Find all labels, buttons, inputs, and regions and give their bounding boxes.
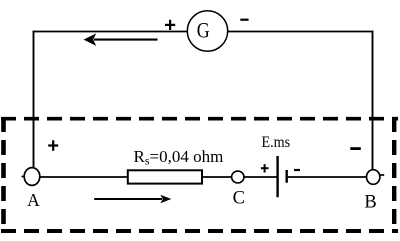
polarity minus at battery right — [294, 169, 300, 171]
svg-text:C: C — [233, 189, 245, 209]
polarity plus near A — [48, 140, 58, 151]
polarity plus at galvanometer left — [165, 20, 175, 30]
svg-text:G: G — [197, 17, 210, 42]
svg-text:B: B — [364, 192, 376, 212]
dashed enclosure box top edge — [1, 117, 398, 121]
wire A to resistor — [40, 176, 127, 178]
galvanometer U1 circle — [187, 11, 227, 51]
current direction arrow bottom (pointing right) — [94, 195, 171, 204]
wire top right horizontal — [228, 31, 374, 33]
battery short plate (negative) — [286, 170, 288, 183]
wire battery to B — [288, 176, 367, 178]
current direction arrow top (pointing left) — [84, 33, 158, 46]
wire top left horizontal — [33, 31, 188, 33]
svg-text:E.ms: E.ms — [262, 134, 291, 151]
polarity minus at galvanometer right — [240, 19, 248, 21]
dashed enclosure box left edge — [1, 117, 6, 233]
terminal A circle — [24, 168, 40, 186]
svg-text:A: A — [27, 190, 40, 210]
dashed enclosure box bottom edge — [1, 229, 398, 233]
wire C to battery — [244, 176, 277, 178]
wire resistor to C — [203, 176, 232, 178]
wire left vertical — [33, 31, 35, 168]
dashed enclosure box right edge — [392, 117, 396, 233]
battery long plate (positive) — [276, 156, 278, 197]
polarity minus near B — [350, 147, 361, 150]
polarity plus at battery left — [261, 164, 269, 172]
terminal B circle — [367, 170, 380, 185]
node C circle — [232, 171, 244, 183]
wire stub right of B — [380, 174, 384, 176]
resistor Rs body — [128, 170, 202, 183]
wire right vertical — [372, 31, 374, 171]
wire stub left of A — [22, 176, 25, 178]
